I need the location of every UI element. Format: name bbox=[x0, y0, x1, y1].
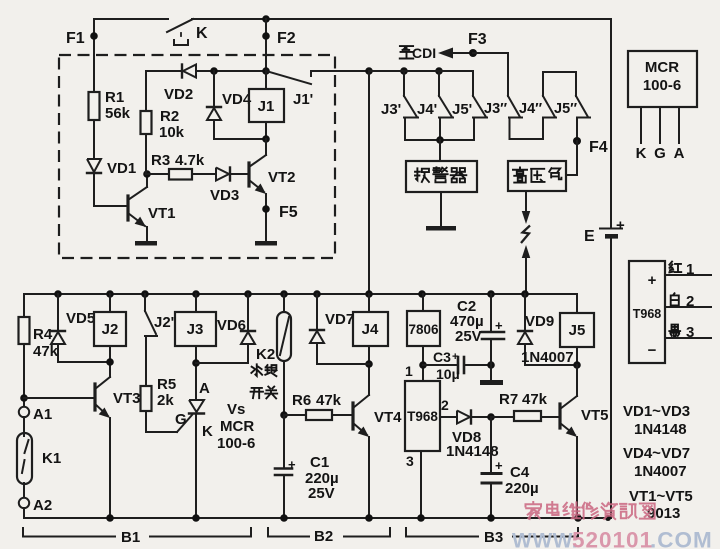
svg-text:.COM: .COM bbox=[650, 528, 713, 549]
svg-text:C4: C4 bbox=[510, 464, 530, 481]
svg-text:+: + bbox=[452, 351, 458, 363]
svg-text:F1: F1 bbox=[66, 30, 85, 47]
svg-text:3: 3 bbox=[686, 324, 694, 341]
svg-text:7806: 7806 bbox=[408, 322, 439, 337]
svg-text:K: K bbox=[202, 423, 213, 440]
svg-text:J2: J2 bbox=[102, 321, 119, 338]
svg-text:CDI: CDI bbox=[412, 45, 436, 61]
svg-text:R3: R3 bbox=[151, 152, 170, 169]
svg-text:1: 1 bbox=[405, 363, 413, 379]
svg-text:Vs: Vs bbox=[227, 401, 245, 418]
svg-text:1: 1 bbox=[686, 261, 694, 278]
svg-text:R2: R2 bbox=[160, 108, 179, 125]
svg-text:B1: B1 bbox=[121, 529, 140, 546]
svg-text:T968: T968 bbox=[407, 409, 438, 424]
svg-text:+: + bbox=[616, 217, 625, 234]
svg-text:2k: 2k bbox=[157, 392, 174, 409]
svg-text:J4: J4 bbox=[362, 321, 379, 338]
svg-text:K: K bbox=[636, 145, 647, 162]
svg-text:A: A bbox=[674, 145, 685, 162]
svg-text:VD1: VD1 bbox=[107, 160, 136, 177]
svg-text:47k: 47k bbox=[316, 392, 342, 409]
svg-text:VT5: VT5 bbox=[581, 407, 609, 424]
svg-text:VT2: VT2 bbox=[268, 169, 296, 186]
svg-text:56k: 56k bbox=[105, 105, 131, 122]
svg-text:J5': J5' bbox=[452, 101, 472, 118]
svg-text:R5: R5 bbox=[157, 376, 176, 393]
svg-text:VD7: VD7 bbox=[325, 311, 354, 328]
svg-text:WWW.: WWW. bbox=[512, 530, 578, 549]
svg-text:G: G bbox=[654, 145, 666, 162]
svg-text:A2: A2 bbox=[33, 497, 52, 514]
svg-text:K2: K2 bbox=[256, 346, 275, 363]
svg-text:2: 2 bbox=[441, 397, 449, 413]
svg-text:B3: B3 bbox=[484, 529, 503, 546]
svg-text:+: + bbox=[495, 318, 503, 333]
svg-text:3: 3 bbox=[406, 453, 414, 469]
svg-text:R7: R7 bbox=[499, 391, 518, 408]
svg-text:J3: J3 bbox=[187, 321, 204, 338]
svg-text:+: + bbox=[495, 458, 503, 473]
svg-text:J5′′: J5′′ bbox=[554, 101, 578, 117]
svg-text:B2: B2 bbox=[314, 528, 333, 545]
svg-text:F5: F5 bbox=[279, 204, 298, 221]
svg-text:−: − bbox=[648, 342, 657, 359]
svg-text:F4: F4 bbox=[589, 139, 608, 156]
svg-text:1N4007: 1N4007 bbox=[634, 463, 687, 480]
svg-text:T968: T968 bbox=[633, 307, 662, 321]
svg-text:A: A bbox=[199, 380, 210, 397]
svg-text:520101: 520101 bbox=[572, 528, 653, 549]
svg-text:MCR: MCR bbox=[645, 59, 679, 76]
svg-text:+: + bbox=[288, 457, 296, 472]
svg-text:MCR: MCR bbox=[220, 418, 254, 435]
svg-text:C3: C3 bbox=[433, 349, 451, 365]
svg-text:J1': J1' bbox=[293, 91, 313, 108]
svg-text:VD4: VD4 bbox=[222, 91, 252, 108]
svg-text:+: + bbox=[648, 272, 657, 289]
svg-text:100-6: 100-6 bbox=[643, 77, 681, 94]
svg-text:1N4148: 1N4148 bbox=[634, 421, 687, 438]
svg-text:J3': J3' bbox=[381, 101, 401, 118]
svg-text:J4': J4' bbox=[417, 101, 437, 118]
svg-text:VT3: VT3 bbox=[113, 390, 141, 407]
svg-text:VD2: VD2 bbox=[164, 86, 193, 103]
svg-text:VT4: VT4 bbox=[374, 409, 402, 426]
svg-text:1N4007: 1N4007 bbox=[521, 349, 574, 366]
svg-text:4.7k: 4.7k bbox=[175, 152, 205, 169]
svg-text:VD1~VD3: VD1~VD3 bbox=[623, 403, 690, 420]
svg-text:E: E bbox=[584, 228, 595, 245]
svg-text:VT1: VT1 bbox=[148, 205, 176, 222]
svg-text:25V: 25V bbox=[308, 485, 335, 502]
svg-text:VD3: VD3 bbox=[210, 187, 239, 204]
svg-text:VD4~VD7: VD4~VD7 bbox=[623, 445, 690, 462]
svg-text:F2: F2 bbox=[277, 30, 296, 47]
svg-text:R4: R4 bbox=[33, 326, 53, 343]
svg-text:J3′′: J3′′ bbox=[484, 101, 508, 117]
svg-text:VT1~VT5: VT1~VT5 bbox=[629, 488, 693, 505]
svg-text:J2': J2' bbox=[154, 314, 174, 331]
svg-text:100-6: 100-6 bbox=[217, 435, 255, 452]
svg-text:47k: 47k bbox=[33, 343, 59, 360]
svg-text:J4′′: J4′′ bbox=[519, 101, 543, 117]
svg-text:VD6: VD6 bbox=[217, 317, 246, 334]
svg-text:C1: C1 bbox=[310, 454, 329, 471]
svg-text:K: K bbox=[196, 25, 208, 42]
svg-text:2: 2 bbox=[686, 293, 694, 310]
svg-text:J5: J5 bbox=[569, 322, 586, 339]
svg-text:47k: 47k bbox=[522, 391, 548, 408]
svg-text:VD5: VD5 bbox=[66, 310, 95, 327]
svg-text:K1: K1 bbox=[42, 450, 61, 467]
svg-text:J1: J1 bbox=[258, 98, 275, 115]
svg-text:F3: F3 bbox=[468, 31, 487, 48]
svg-text:10µ: 10µ bbox=[436, 366, 460, 382]
svg-text:G: G bbox=[175, 411, 187, 428]
svg-text:VD9: VD9 bbox=[525, 313, 554, 330]
svg-text:R1: R1 bbox=[105, 89, 124, 106]
svg-text:25V: 25V bbox=[455, 328, 482, 345]
svg-text:10k: 10k bbox=[159, 124, 185, 141]
svg-text:R6: R6 bbox=[292, 392, 311, 409]
svg-text:A1: A1 bbox=[33, 406, 52, 423]
svg-text:220µ: 220µ bbox=[505, 480, 539, 497]
